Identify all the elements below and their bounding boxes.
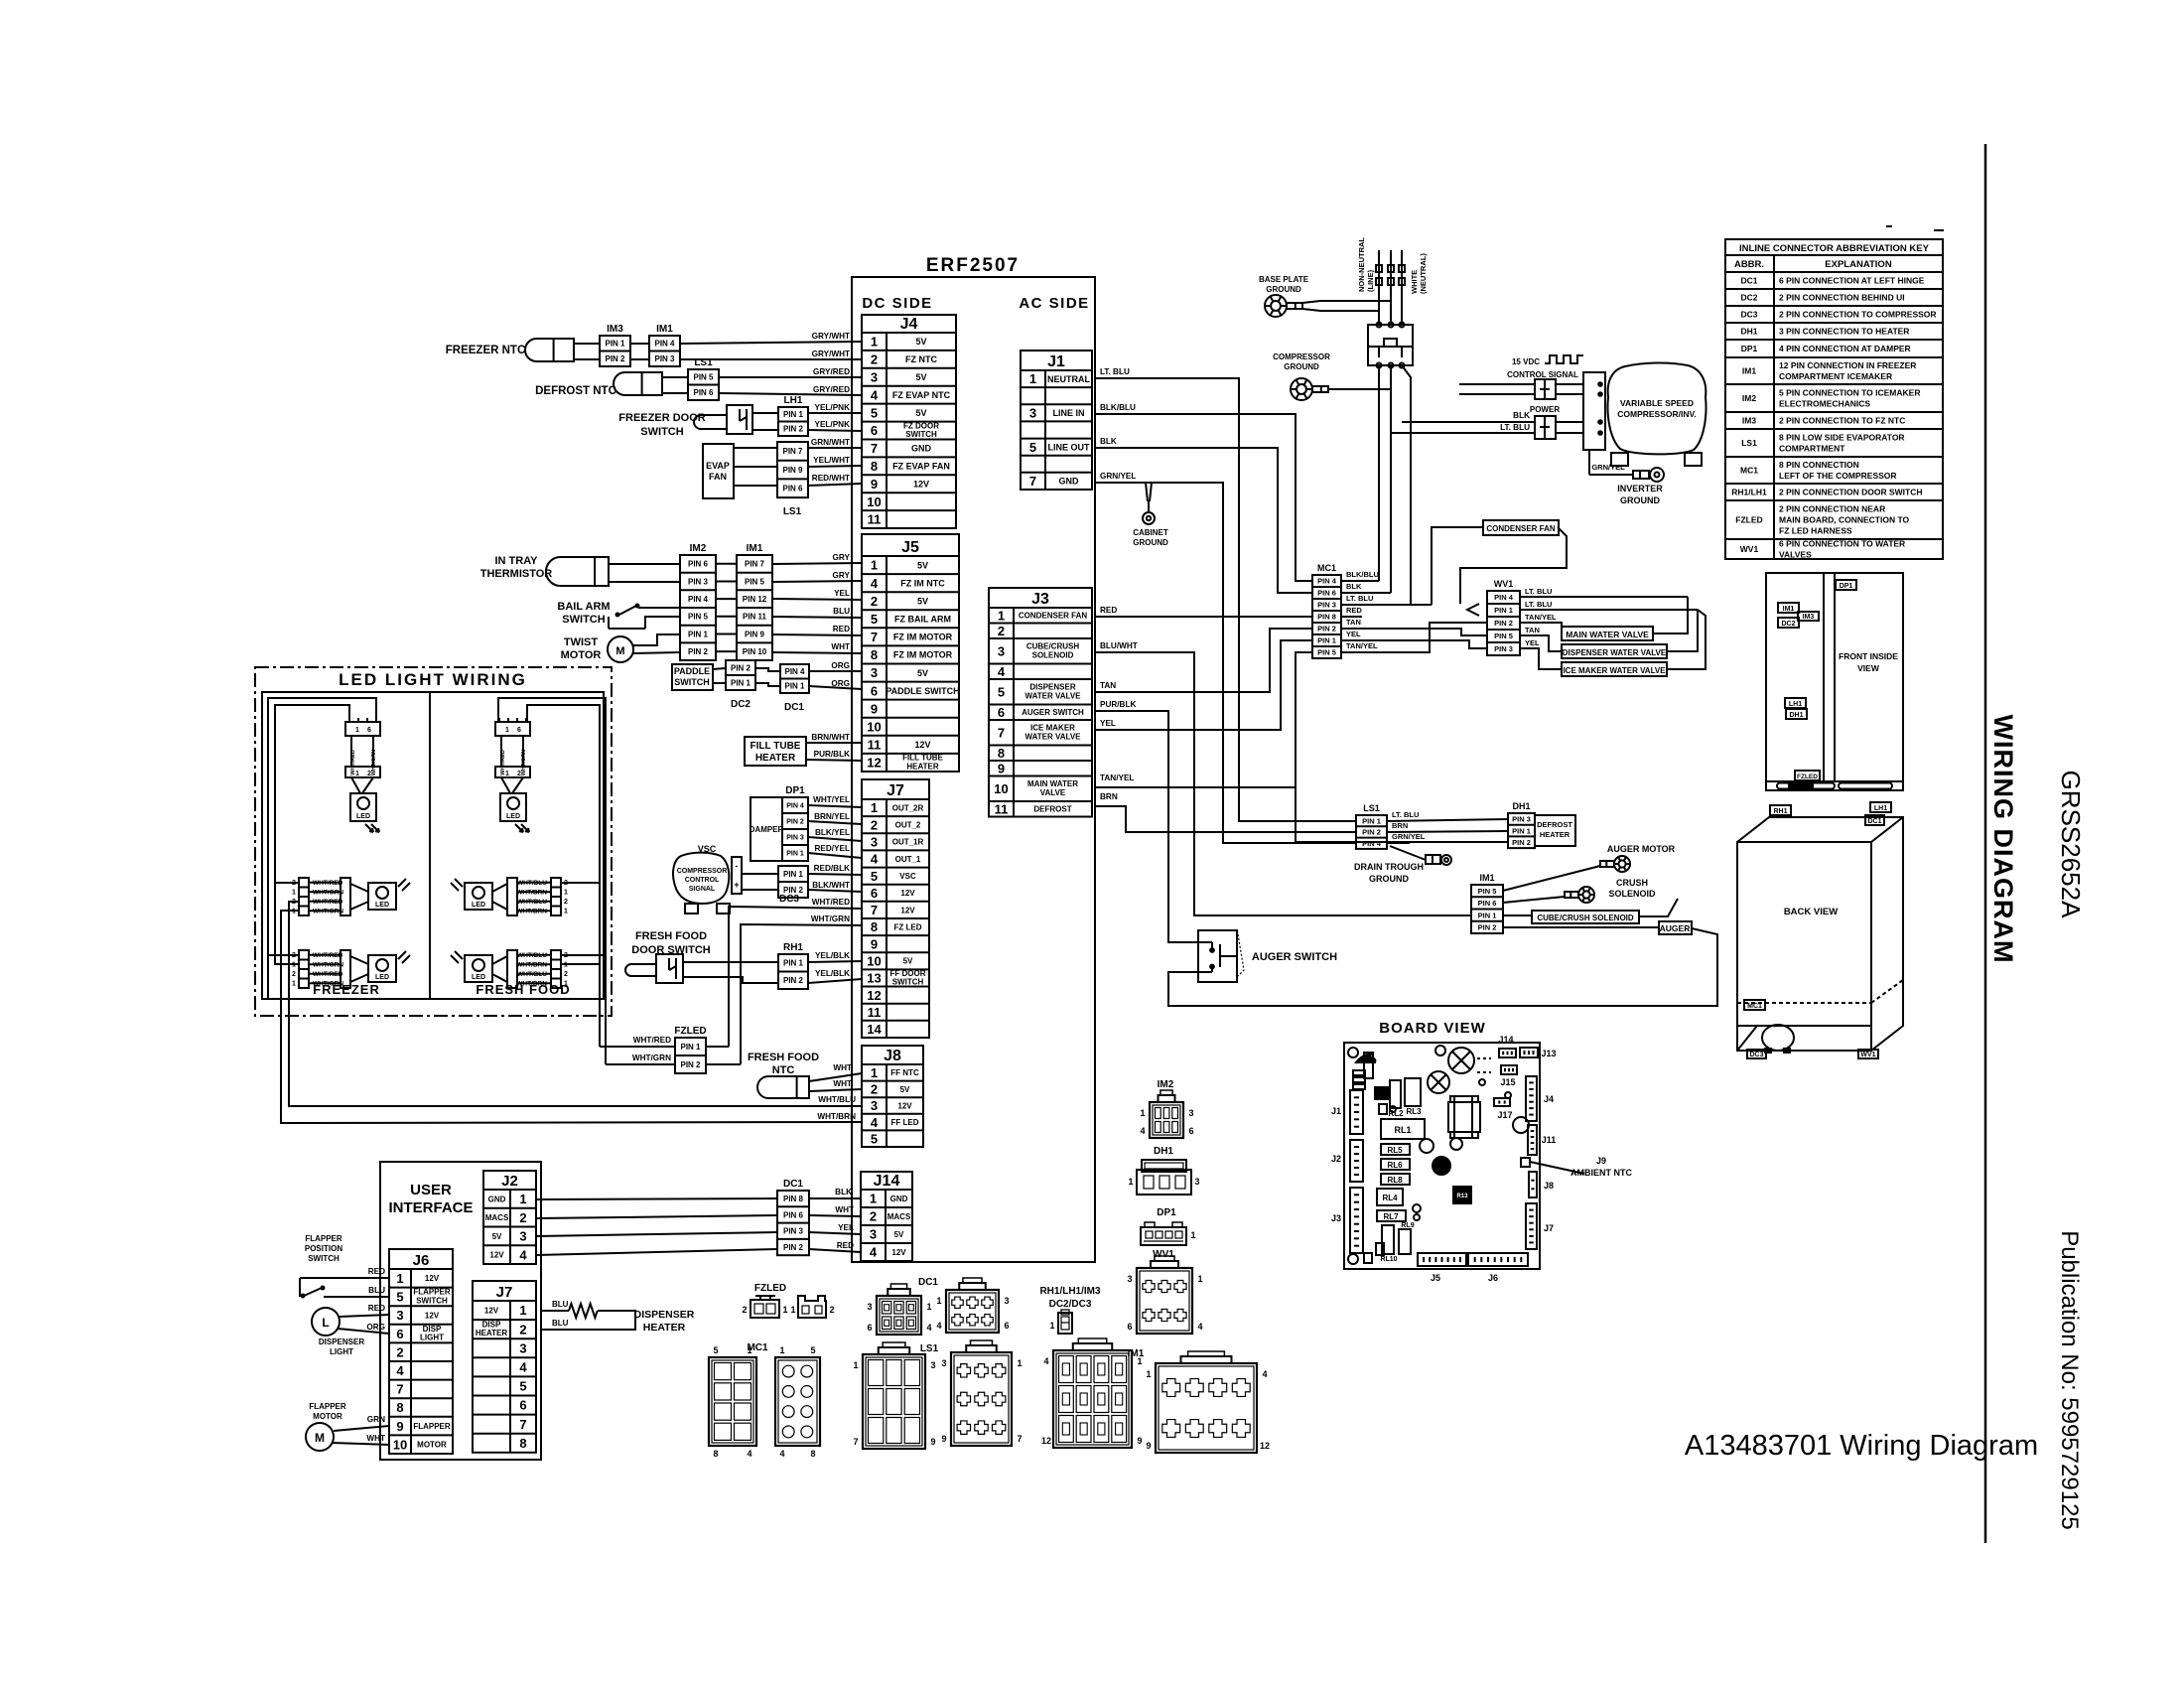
mains vertical wire NEUTRAL — [1399, 250, 1405, 325]
component cluster top-left — [1353, 1054, 1375, 1089]
auger switch — [1198, 930, 1337, 982]
svg-text:FREEZER NTC: FREEZER NTC — [446, 345, 526, 356]
svg-text:LED: LED — [375, 902, 389, 909]
svg-text:DC1: DC1 — [918, 1277, 938, 1288]
capacitor C1 on board — [1448, 1048, 1474, 1073]
svg-text:MAIN BOARD, CONNECTION TO: MAIN BOARD, CONNECTION TO — [1779, 515, 1910, 525]
table J7 (UI) — [473, 1281, 536, 1453]
label RH1/LH1/IM3 DC2/DC3 — [1039, 1286, 1101, 1310]
svg-text:11: 11 — [868, 1005, 882, 1020]
svg-text:COMPRESSOR: COMPRESSOR — [677, 868, 728, 875]
svg-text:7: 7 — [998, 725, 1005, 740]
svg-text:BLK/BLU: BLK/BLU — [1346, 570, 1379, 579]
svg-text:PIN 6: PIN 6 — [688, 560, 709, 569]
svg-text:1: 1 — [396, 1271, 403, 1286]
svg-text:BLK: BLK — [835, 1188, 852, 1196]
fresh food NTC bulb — [757, 1076, 809, 1098]
svg-text:J8: J8 — [1544, 1181, 1554, 1191]
svg-text:DH1: DH1 — [1512, 801, 1530, 811]
svg-text:LT. BLU: LT. BLU — [1525, 600, 1552, 609]
svg-text:DISP: DISP — [423, 1325, 442, 1334]
svg-text:8: 8 — [519, 1436, 526, 1451]
svg-text:WHT: WHT — [831, 642, 850, 651]
fresh food top LED module — [495, 718, 530, 832]
dispenser heater resistor — [541, 1304, 635, 1330]
svg-text:12V: 12V — [425, 1311, 440, 1320]
svg-text:PIN 1: PIN 1 — [783, 410, 804, 419]
dispenser heater — [634, 1309, 695, 1334]
board misc dashes — [1477, 1058, 1511, 1098]
svg-text:FZ IM MOTOR: FZ IM MOTOR — [893, 650, 953, 660]
svg-text:12V: 12V — [900, 906, 915, 914]
svg-text:YEL/BLK: YEL/BLK — [815, 969, 850, 978]
svg-text:6: 6 — [1127, 1322, 1132, 1332]
svg-text:ERF2507: ERF2507 — [926, 255, 1020, 276]
svg-text:HEATER: HEATER — [755, 753, 796, 764]
svg-text:PIN 7: PIN 7 — [782, 447, 803, 456]
svg-text:CONDENSER FAN: CONDENSER FAN — [1019, 612, 1088, 621]
bail arm switch — [557, 601, 610, 626]
svg-text:J15: J15 — [1500, 1077, 1515, 1087]
svg-text:2: 2 — [871, 817, 878, 832]
paddle switch — [672, 664, 713, 690]
svg-text:WIRING DIAGRAM: WIRING DIAGRAM — [1988, 715, 2018, 964]
inline connector DP1 pins — [782, 797, 808, 861]
svg-text:LED: LED — [472, 902, 485, 909]
svg-text:RED: RED — [368, 1304, 385, 1313]
svg-text:FRESH FOOD: FRESH FOOD — [748, 1052, 819, 1063]
svg-text:AUGER SWITCH: AUGER SWITCH — [1252, 951, 1337, 963]
wire GRN to J6-9 — [334, 1415, 389, 1431]
svg-text:WHT: WHT — [833, 1063, 852, 1072]
inline connector IM3 — [600, 324, 630, 366]
heat sink on board — [1448, 1096, 1480, 1138]
svg-text:PIN 3: PIN 3 — [1494, 644, 1513, 653]
connector illustration WV1 — [1127, 1256, 1202, 1334]
svg-text:10: 10 — [867, 954, 881, 969]
wire fresh food LED bus 1 — [527, 705, 600, 883]
svg-text:COMPARTMENT ICEMAKER: COMPARTMENT ICEMAKER — [1779, 371, 1892, 381]
svg-text:WHT/GRN: WHT/GRN — [632, 1054, 671, 1062]
svg-text:3: 3 — [871, 835, 878, 850]
svg-text:DC2/DC3: DC2/DC3 — [1049, 1299, 1092, 1310]
svg-text:PIN 3: PIN 3 — [786, 835, 804, 842]
wire evap fan pin6 — [734, 485, 777, 487]
svg-text:LS1: LS1 — [694, 357, 713, 368]
svg-text:A13483701 Wiring Diagram: A13483701 Wiring Diagram — [1685, 1430, 2038, 1462]
back view label DC3 — [1747, 1050, 1766, 1058]
svg-text:1: 1 — [1017, 1358, 1022, 1368]
WV1 pin3 wire YEL — [1520, 638, 1562, 669]
svg-text:PIN 1: PIN 1 — [784, 682, 805, 691]
svg-text:4: 4 — [519, 1360, 527, 1375]
wire evap fan pin7 — [734, 447, 777, 449]
svg-text:LED: LED — [356, 813, 370, 820]
wire BLU to J5-5 — [772, 607, 862, 618]
wire ORG to J6-6 — [338, 1323, 389, 1334]
inline connector DH1 (heater) — [1508, 801, 1535, 848]
svg-text:RED: RED — [1346, 606, 1362, 615]
svg-text:DEFROST: DEFROST — [1033, 805, 1071, 814]
svg-text:HEATER: HEATER — [643, 1322, 686, 1334]
WV1 pin4 wire LT. BLU — [1520, 587, 1688, 597]
table J2 (UI) — [483, 1171, 536, 1264]
svg-text:12V: 12V — [484, 1306, 499, 1315]
svg-text:J14: J14 — [874, 1173, 900, 1190]
wire WHT/RED to J7-7 — [729, 898, 862, 1047]
svg-text:PIN 1: PIN 1 — [1362, 816, 1381, 825]
svg-text:5: 5 — [713, 1345, 718, 1355]
svg-text:SWITCH: SWITCH — [892, 978, 924, 987]
fresh food LED module 2 — [451, 878, 568, 915]
svg-text:5: 5 — [810, 1345, 815, 1355]
defrost NTC bulb — [614, 372, 662, 395]
table J4 — [862, 315, 956, 528]
fresh food door switch symbol — [625, 954, 683, 983]
svg-text:WHT/RED: WHT/RED — [812, 898, 850, 907]
svg-text:13: 13 — [867, 971, 881, 986]
svg-text:RH1: RH1 — [783, 942, 803, 953]
LS1 pin4 wire GRN/YEL — [1387, 832, 1426, 843]
svg-text:CRUSH: CRUSH — [1616, 878, 1648, 888]
svg-text:5V: 5V — [917, 560, 928, 570]
svg-text:12: 12 — [1260, 1441, 1270, 1451]
svg-text:FZ LED: FZ LED — [894, 922, 922, 931]
wire WHT/BLU to J8-3 — [289, 988, 862, 1106]
wire freezer NTC to IM3 pin1 — [574, 343, 600, 345]
svg-text:10: 10 — [867, 719, 881, 734]
svg-text:COMPRESSOR: COMPRESSOR — [1273, 352, 1330, 361]
LS1 pin2 wire BRN — [1387, 821, 1508, 832]
svg-text:J8: J8 — [884, 1048, 901, 1064]
svg-text:PIN 2: PIN 2 — [1317, 625, 1336, 633]
svg-text:RL5: RL5 — [1387, 1146, 1403, 1155]
svg-text:3: 3 — [1029, 406, 1036, 421]
svg-text:12V: 12V — [897, 1101, 912, 1110]
svg-text:PIN 1: PIN 1 — [1494, 606, 1513, 615]
svg-text:4: 4 — [779, 1449, 784, 1459]
svg-text:1: 1 — [1029, 371, 1036, 386]
inverter connector strip — [1583, 372, 1605, 450]
svg-text:WV1: WV1 — [1494, 579, 1514, 589]
svg-text:11: 11 — [995, 801, 1009, 816]
power wire BLK — [1402, 411, 1535, 422]
svg-text:CONTROL SIGNAL: CONTROL SIGNAL — [1507, 370, 1578, 379]
relay RL6 — [1381, 1159, 1410, 1170]
svg-text:12V: 12V — [914, 740, 930, 750]
svg-text:MAIN WATER: MAIN WATER — [1027, 779, 1078, 788]
svg-text:USER: USER — [410, 1182, 452, 1198]
svg-text:PIN 4: PIN 4 — [786, 803, 804, 810]
svg-text:PIN 5: PIN 5 — [1317, 648, 1336, 657]
auger motor — [1607, 844, 1676, 854]
wire WHT/YEL to J7-1 — [808, 795, 862, 807]
svg-text:MAIN WATER VALVE: MAIN WATER VALVE — [1566, 630, 1649, 639]
base plate ground lug — [1265, 295, 1302, 317]
svg-text:1: 1 — [564, 909, 568, 915]
svg-text:IN TRAY: IN TRAY — [495, 555, 539, 567]
board connector J11 — [1528, 1125, 1556, 1155]
svg-text:6: 6 — [871, 683, 878, 698]
terminal block down wire 3 — [1402, 365, 1411, 605]
svg-text:PIN 4: PIN 4 — [654, 340, 675, 349]
front inside view — [1766, 573, 1903, 790]
wire RED to J5-7 — [772, 625, 862, 635]
main control board ERF2507 outline — [852, 255, 1095, 1262]
svg-text:1: 1 — [790, 1305, 795, 1315]
twist motor symbol M — [608, 636, 633, 662]
base plate ground wire 1 — [1302, 301, 1391, 303]
wire RED from J3-1 — [1095, 606, 1312, 617]
inline connector LS1 (evap harness) — [1356, 803, 1387, 849]
wire WHT/GRN into FZLED pin2 — [606, 1054, 675, 1064]
freezer top LED module — [345, 718, 380, 832]
svg-text:SWITCH: SWITCH — [416, 1297, 448, 1306]
terminal block down wire 2 — [1390, 365, 1392, 593]
svg-text:PIN 9: PIN 9 — [745, 630, 765, 638]
connector illustration IM1 receptacle — [1041, 1338, 1143, 1448]
power connector — [1535, 416, 1556, 439]
svg-text:6: 6 — [871, 423, 878, 438]
wire IM2 to IM1 row6 — [716, 650, 737, 652]
svg-text:3: 3 — [941, 1358, 946, 1368]
svg-text:FLAPPER: FLAPPER — [309, 1402, 346, 1411]
svg-text:1: 1 — [564, 981, 568, 988]
svg-text:PIN 6: PIN 6 — [783, 1210, 804, 1219]
svg-text:INVERTER: INVERTER — [1617, 484, 1663, 493]
svg-text:PIN 10: PIN 10 — [743, 647, 767, 656]
damper DP1 — [750, 785, 806, 861]
svg-text:YEL: YEL — [838, 1223, 854, 1232]
wire IM3-IM1 pin1 — [630, 343, 649, 345]
svg-text:4 PIN CONNECTION AT DAMPER: 4 PIN CONNECTION AT DAMPER — [1779, 344, 1911, 353]
svg-text:8 PIN LOW SIDE EVAPORATOR: 8 PIN LOW SIDE EVAPORATOR — [1779, 433, 1905, 443]
wire YEL from J3-7 — [1095, 640, 1312, 730]
svg-text:POWER: POWER — [1530, 405, 1560, 414]
svg-text:2 PIN CONNECTION BEHIND UI: 2 PIN CONNECTION BEHIND UI — [1779, 293, 1905, 303]
svg-text:9: 9 — [871, 701, 878, 716]
svg-text:GRY/WHT: GRY/WHT — [812, 332, 850, 341]
svg-text:2: 2 — [396, 1344, 403, 1359]
svg-text:YEL/PNK: YEL/PNK — [815, 420, 851, 429]
svg-text:DEFROST NTC: DEFROST NTC — [535, 385, 616, 397]
svg-text:4: 4 — [1140, 1126, 1145, 1136]
connector illustration LS1 receptacle — [853, 1342, 935, 1449]
svg-text:FRESH FOOD: FRESH FOOD — [635, 930, 707, 942]
inline connector DC1 (paddle) — [780, 664, 809, 693]
control to inverter 1 — [1556, 383, 1583, 385]
front view label IM3 — [1798, 612, 1819, 621]
svg-text:YEL: YEL — [834, 589, 850, 598]
wire MC1 pin3 to condenser fan — [1432, 527, 1482, 605]
compressor terminal block — [1368, 323, 1413, 368]
svg-text:3: 3 — [870, 1227, 877, 1242]
WV1 pin2 wire TAN/YEL — [1520, 613, 1562, 633]
auger switch return — [1168, 928, 1717, 1006]
svg-text:DC2: DC2 — [1781, 621, 1795, 628]
svg-text:Publication No: 5995729125: Publication No: 5995729125 — [2056, 1230, 2083, 1530]
svg-text:IM1: IM1 — [1783, 606, 1795, 613]
wire WHT to J6-10 — [332, 1434, 389, 1445]
wire DC2 to DC1 pin4 — [755, 668, 780, 671]
svg-text:PIN 2: PIN 2 — [783, 1243, 804, 1252]
svg-text:IM3: IM3 — [607, 324, 623, 335]
compressor ground lug — [1291, 378, 1328, 400]
wire BLK/WHT to J7-6 — [808, 881, 862, 892]
svg-text:RED: RED — [368, 1267, 385, 1276]
front view label DC2 — [1778, 618, 1799, 628]
svg-text:2 PIN CONNECTION TO COMPRESSOR: 2 PIN CONNECTION TO COMPRESSOR — [1779, 310, 1937, 320]
svg-text:1: 1 — [853, 1360, 858, 1370]
svg-text:NON-NEUTRAL: NON-NEUTRAL — [1357, 237, 1366, 292]
wire IM2 to IM1 row5 — [716, 633, 737, 635]
relay RL2 — [1388, 1080, 1404, 1118]
svg-text:SWITCH: SWITCH — [674, 677, 710, 687]
svg-text:5: 5 — [396, 1290, 403, 1305]
svg-text:PIN 2: PIN 2 — [783, 425, 804, 434]
svg-text:FZLED: FZLED — [1735, 515, 1762, 525]
svg-text:5V: 5V — [903, 957, 913, 966]
VSC terminal strip — [732, 857, 742, 894]
svg-text:8: 8 — [871, 919, 878, 934]
svg-text:6: 6 — [517, 727, 521, 734]
svg-text:ELECTROMECHANICS: ELECTROMECHANICS — [1779, 399, 1870, 409]
svg-text:FF DOOR: FF DOOR — [890, 969, 926, 978]
svg-text:1: 1 — [292, 890, 296, 897]
svg-text:9: 9 — [998, 761, 1005, 775]
VSC compressor control signal blob — [673, 844, 730, 914]
svg-text:DC1: DC1 — [784, 702, 804, 713]
svg-text:9: 9 — [930, 1437, 935, 1447]
svg-text:J4: J4 — [900, 316, 918, 333]
svg-text:TAN: TAN — [1525, 626, 1540, 634]
svg-text:5V: 5V — [900, 1085, 910, 1094]
wire IM2 to IM1 row2 — [716, 581, 737, 583]
svg-text:U5: U5 — [1378, 1091, 1387, 1098]
svg-text:LIGHT: LIGHT — [420, 1334, 444, 1342]
svg-text:12: 12 — [1041, 1436, 1051, 1446]
svg-text:3: 3 — [519, 1340, 526, 1355]
wire WHT/GRN to J7-8 — [741, 914, 862, 1064]
wire WHT to J14-2 — [809, 1205, 861, 1216]
svg-text:2: 2 — [564, 971, 568, 978]
svg-text:15 VDC: 15 VDC — [1512, 357, 1540, 366]
svg-text:RH1/LH1: RH1/LH1 — [1731, 488, 1767, 497]
svg-text:6: 6 — [396, 1327, 403, 1341]
svg-text:LED: LED — [472, 974, 485, 981]
board connector J4 — [1526, 1076, 1554, 1121]
svg-text:9: 9 — [871, 936, 878, 951]
svg-text:AUGER MOTOR: AUGER MOTOR — [1607, 844, 1676, 854]
svg-text:FILL TUBE: FILL TUBE — [751, 741, 801, 752]
svg-text:OUT_2R: OUT_2R — [892, 804, 924, 813]
connector illustration IM2 — [1140, 1090, 1193, 1138]
wire twist motor to IM2 pin2 — [633, 652, 680, 653]
wire IM1 pin2 to auger — [1503, 926, 1659, 928]
svg-text:11: 11 — [868, 512, 882, 527]
svg-text:4: 4 — [519, 1247, 527, 1262]
svg-text:FZ EVAP NTC: FZ EVAP NTC — [892, 390, 951, 400]
svg-text:FAN: FAN — [709, 472, 727, 482]
svg-text:SWITCH: SWITCH — [640, 426, 683, 438]
svg-text:WHT/BRN: WHT/BRN — [817, 1112, 856, 1121]
svg-text:3: 3 — [1188, 1108, 1193, 1118]
wire GRY to J5-4 — [772, 571, 862, 582]
svg-text:3: 3 — [871, 1098, 878, 1113]
svg-text:PIN 8: PIN 8 — [783, 1195, 804, 1203]
svg-text:DISP: DISP — [482, 1320, 501, 1329]
svg-text:PIN 2: PIN 2 — [680, 1060, 701, 1069]
wire IM1 pin1 to cube/crush — [1503, 914, 1532, 916]
svg-text:7: 7 — [871, 903, 878, 917]
svg-text:12 PIN CONNECTION IN FREEZER: 12 PIN CONNECTION IN FREEZER — [1779, 360, 1916, 370]
freezer NTC thermistor — [446, 345, 526, 356]
svg-text:TAN/YEL: TAN/YEL — [1346, 641, 1378, 650]
dispenser water valve — [1562, 644, 1667, 658]
svg-text:3: 3 — [1127, 1274, 1132, 1284]
svg-text:L: L — [322, 1316, 329, 1330]
svg-text:DISPENSER: DISPENSER — [1029, 683, 1075, 692]
svg-text:5V: 5V — [915, 408, 926, 418]
wire RED to J6-3 — [340, 1304, 389, 1317]
wire BRN/YEL to J7-2 — [808, 812, 862, 824]
svg-text:J4: J4 — [1544, 1094, 1554, 1104]
freezer LED module 3 — [292, 950, 410, 988]
svg-text:WATER VALVE: WATER VALVE — [1025, 691, 1082, 700]
svg-text:PIN 9: PIN 9 — [782, 466, 803, 475]
svg-text:2 PIN CONNECTION NEAR: 2 PIN CONNECTION NEAR — [1779, 504, 1885, 514]
back view label LH1 — [1870, 802, 1891, 812]
svg-text:HEATER: HEATER — [906, 763, 939, 772]
dispenser light — [312, 1308, 364, 1356]
svg-text:PIN 2: PIN 2 — [786, 819, 804, 826]
svg-text:PIN 5: PIN 5 — [1478, 887, 1497, 896]
svg-text:IM1: IM1 — [656, 324, 673, 335]
table J6 (UI) — [389, 1249, 453, 1454]
svg-text:COMPARTMENT: COMPARTMENT — [1779, 444, 1845, 454]
svg-text:LS1: LS1 — [1363, 803, 1380, 813]
inline connector LS1 (evap fan) — [777, 442, 808, 497]
svg-text:J7: J7 — [496, 1284, 513, 1301]
tick marks above key table — [1886, 226, 1944, 230]
compressor ground wire — [1328, 388, 1391, 390]
svg-text:COMPRESSOR/INV.: COMPRESSOR/INV. — [1617, 409, 1697, 419]
svg-text:RH1/LH1/IM3: RH1/LH1/IM3 — [1039, 1286, 1101, 1297]
svg-text:J11: J11 — [1542, 1135, 1557, 1145]
svg-text:YEL/BLK: YEL/BLK — [815, 951, 850, 960]
wire RED to J6-1 — [300, 1267, 389, 1278]
diode D1 on board — [1364, 1053, 1373, 1078]
svg-text:DISPENSER: DISPENSER — [634, 1309, 695, 1321]
svg-text:GROUND: GROUND — [1620, 495, 1660, 505]
svg-text:J1: J1 — [1047, 353, 1065, 370]
svg-text:RED/YEL: RED/YEL — [815, 844, 851, 853]
connector illustration LS1 plug — [941, 1340, 1022, 1446]
wire YEL/WHT to J4-8 — [808, 456, 862, 467]
svg-text:4: 4 — [871, 852, 879, 867]
svg-text:J6: J6 — [413, 1252, 430, 1269]
capacitor C3 on board — [1433, 1157, 1450, 1175]
right margin rule — [1984, 144, 1987, 1543]
svg-text:OUT_1R: OUT_1R — [892, 838, 924, 847]
svg-text:PIN 1: PIN 1 — [1317, 636, 1336, 645]
relay RL3 — [1405, 1078, 1422, 1116]
fresh food door switch — [631, 930, 710, 956]
wire switch to LH1 pin2 — [752, 429, 778, 431]
wire BLK/BLU from J1-3 — [1095, 403, 1312, 581]
WV1 pin1 wire LT. BLU — [1520, 600, 1698, 610]
svg-text:6 PIN CONNECTION AT LEFT HINGE: 6 PIN CONNECTION AT LEFT HINGE — [1779, 276, 1925, 286]
